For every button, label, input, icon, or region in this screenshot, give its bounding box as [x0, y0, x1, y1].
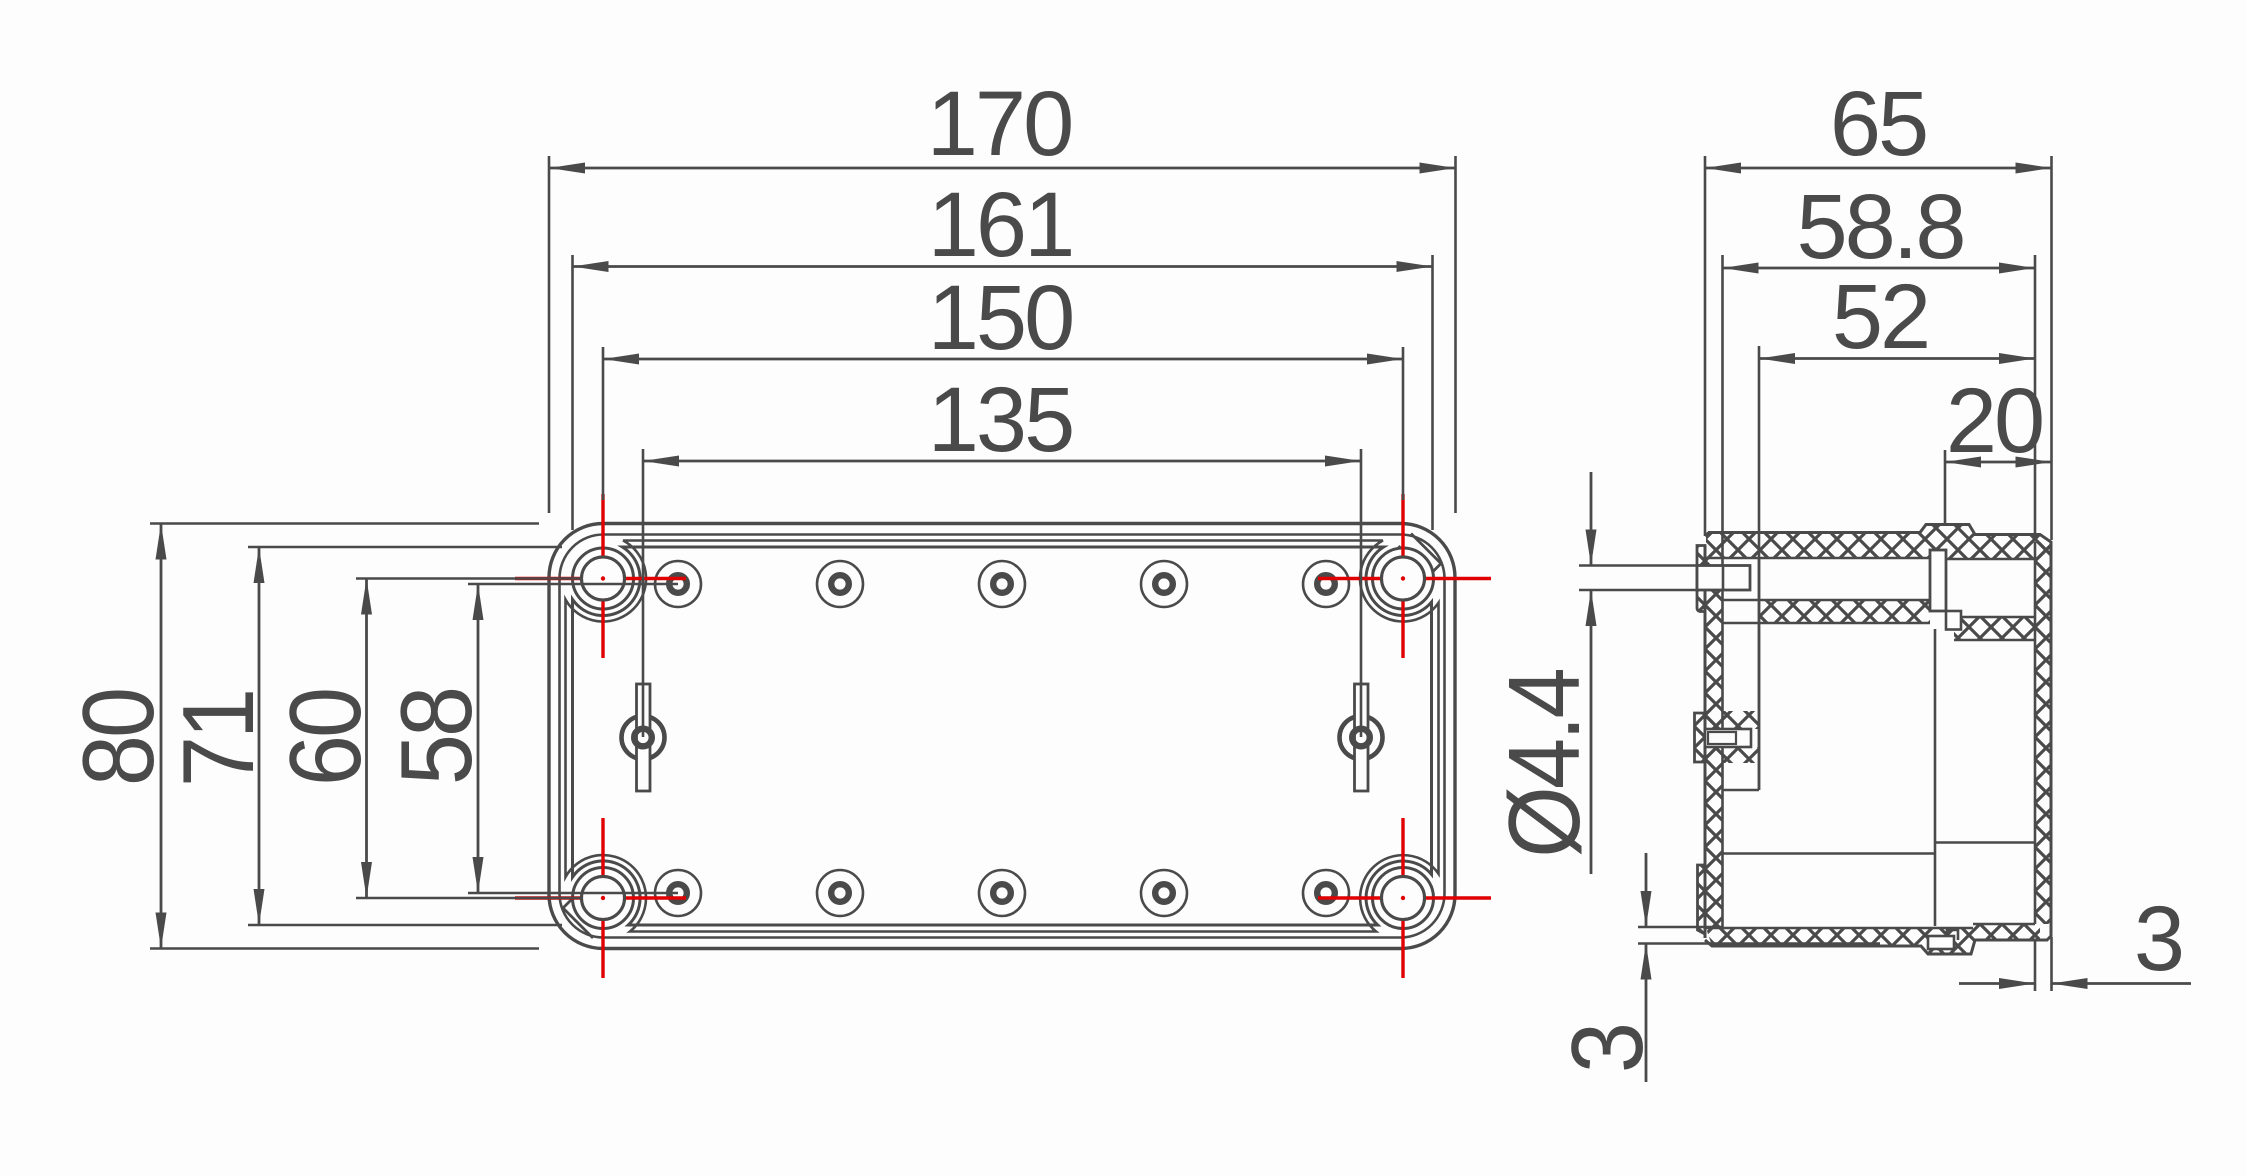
dimension line 135: [643, 460, 1361, 463]
hinge pin (white): [1697, 566, 1750, 591]
dimension line 58.8: [1723, 267, 2036, 270]
section hatch: side latch boss: [1695, 713, 1706, 762]
svg-text:52: 52: [1832, 266, 1928, 368]
dimension text 20: [1946, 370, 2042, 472]
svg-text:20: 20: [1946, 370, 2042, 472]
lid screw rings row (10 small bosses): [655, 561, 701, 607]
section hatch: left wall: [1705, 558, 1723, 928]
svg-text:170: 170: [927, 73, 1072, 175]
svg-text:135: 135: [928, 369, 1073, 471]
dimension 161 extension lines: [573, 255, 1433, 530]
dimension text 52: [1832, 266, 1928, 368]
mounting keyhole slot left: [622, 684, 665, 791]
corner screw hole top-right: [1373, 548, 1434, 609]
corner clip tab top-right: [1399, 534, 1442, 577]
enclosure outer outline: [549, 524, 1455, 949]
svg-text:3: 3: [2134, 888, 2182, 990]
latch boss hatch details: [1705, 711, 1759, 763]
dimension line 60: [365, 579, 368, 899]
dimension 3 bottom-right: [1959, 982, 2191, 985]
dimension text 161: [928, 174, 1073, 276]
red center dots: [601, 576, 1405, 900]
red centerline crosshair top-right screw: [1318, 494, 1491, 658]
dimension text 3 bottom-right: [2134, 888, 2182, 990]
dimension line 150: [603, 358, 1403, 361]
svg-text:58: 58: [380, 689, 493, 785]
dimension text 3 bottom-left: [1551, 1025, 1664, 1073]
red centerline crosshair top-left screw: [515, 494, 686, 658]
svg-text:3: 3: [1551, 1025, 1664, 1073]
dimension 58 extension lines: [468, 584, 678, 893]
section hatch: wall step strip: [1697, 546, 1705, 612]
screw hole white cores over red: [583, 559, 1423, 919]
dimension 58.8 extension lines: [1723, 255, 2036, 558]
dimension 3 bottom-left: [1645, 853, 1648, 1082]
dimension 80 extension lines: [150, 524, 539, 949]
lid seam line A (outermost): [560, 535, 1445, 938]
dimension diam 4.4 extension lines: [1579, 566, 1697, 591]
section hatch: bottom-left foot: [1698, 865, 1706, 934]
section hatch: inner flange band: [1723, 600, 2036, 640]
svg-text:161: 161: [928, 174, 1073, 276]
dimension line 161: [573, 265, 1433, 268]
dimension 3 left extension lines: [1638, 927, 1880, 944]
red centerline crosshair bottom-right screw: [1318, 818, 1491, 978]
dimension text 135: [928, 369, 1073, 471]
svg-text:Ø4.4: Ø4.4: [1488, 670, 1601, 858]
inner rib (white): [1723, 590, 1760, 790]
section hatch: bottom wall band: [1706, 924, 2040, 954]
lid recess line C (innermost): [573, 547, 1432, 925]
dimension text 71: [162, 691, 275, 787]
dimension 71 extension lines: [248, 547, 562, 925]
corner screw hole bottom-right: [1373, 868, 1434, 929]
dimension text 60: [269, 690, 382, 786]
svg-text:65: 65: [1830, 73, 1926, 175]
svg-text:80: 80: [62, 690, 175, 786]
corner screw hole top-left: [573, 548, 634, 609]
corner clip tab bottom-left: [563, 896, 606, 939]
lid groove channel (white): [1723, 558, 2036, 617]
svg-text:60: 60: [269, 690, 382, 786]
svg-text:58.8: 58.8: [1796, 176, 1963, 278]
dimension text diam 4.4: [1488, 670, 1601, 858]
dimension 52 extension lines: [1758, 346, 1761, 790]
dimension 65 extension lines: [1705, 156, 2052, 540]
dimension text 58.8: [1796, 176, 1963, 278]
latch slot (white): [1705, 729, 1751, 747]
step below slot: [1946, 611, 1961, 630]
dimension text 150: [928, 267, 1073, 369]
dimension text 65: [1830, 73, 1926, 175]
lid seam line B (middle): [566, 541, 1439, 932]
dimension 170 extension lines: [549, 156, 1456, 513]
corner screw hole bottom-left: [573, 868, 634, 929]
red centerline crosshair bottom-left screw: [515, 818, 686, 978]
dimension line 58: [477, 584, 480, 893]
dimension text 170: [927, 73, 1072, 175]
dimension line 170: [549, 167, 1456, 170]
section hatch: top wall band: [1706, 525, 2051, 559]
dimension line 71: [258, 547, 261, 925]
section hatch: right cover wall: [2035, 542, 2052, 924]
svg-text:71: 71: [162, 691, 275, 787]
dimension line 20: [1945, 461, 2052, 464]
dimension line 65: [1705, 167, 2052, 170]
dimension 20 extension line: [1944, 450, 1947, 526]
dimension 150 extension lines: [603, 347, 1403, 500]
internal section lines: [1705, 542, 2035, 928]
screw clearance slot (white): [1930, 550, 1946, 611]
dimension text 80: [62, 690, 175, 786]
body silhouette: [1705, 525, 2051, 955]
dimension line 52: [1759, 357, 2035, 360]
dimension line 80: [160, 524, 163, 949]
bottom latch notch: [1928, 930, 1958, 949]
dimension 3 right extension lines: [2035, 937, 2052, 991]
dimension text 58: [380, 689, 493, 785]
dimension diam 4.4: [1590, 472, 1593, 874]
svg-text:150: 150: [928, 267, 1073, 369]
dimension 135 extension lines: [643, 449, 1361, 737]
dimension 60 extension lines: [356, 579, 580, 899]
mounting keyhole slot right: [1340, 684, 1383, 791]
